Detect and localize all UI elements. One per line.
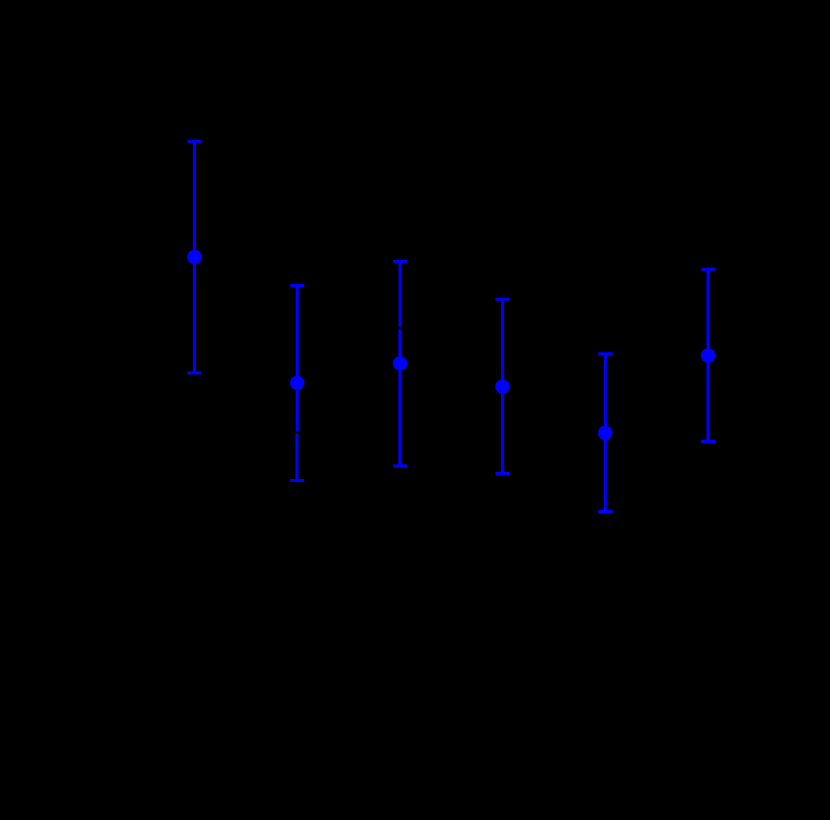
marker 2 <box>290 376 304 390</box>
error bar 6 <box>701 269 715 441</box>
error bar 3 <box>393 261 407 466</box>
marker 6 <box>701 348 715 362</box>
error bar 5 <box>598 354 613 512</box>
error bar 4 <box>496 299 510 473</box>
marker 1 <box>187 250 201 264</box>
marker 3 <box>393 356 407 370</box>
error bar 1 <box>187 141 201 373</box>
marker 5 <box>598 426 612 440</box>
wire <box>193 141 196 373</box>
marker 4 <box>495 379 509 393</box>
error bar 2 <box>290 286 304 481</box>
